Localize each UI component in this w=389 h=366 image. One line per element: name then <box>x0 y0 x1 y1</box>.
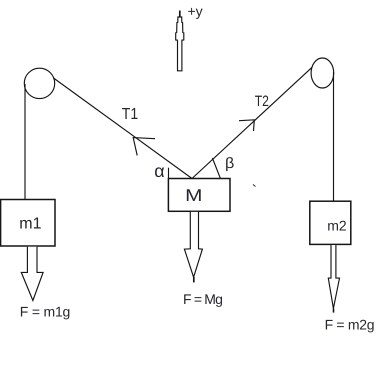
svg-text:m2: m2 <box>327 218 347 234</box>
svg-text:F = m1g: F = m1g <box>20 303 70 319</box>
svg-text:F = Mg: F = Mg <box>183 291 222 307</box>
svg-text:+y: +y <box>188 3 203 19</box>
svg-text:α: α <box>154 161 164 181</box>
svg-text:F = m2g: F = m2g <box>325 317 375 333</box>
svg-text:β: β <box>225 155 235 172</box>
svg-text:M: M <box>185 186 202 205</box>
svg-text:T1: T1 <box>122 106 138 123</box>
svg-text:m1: m1 <box>19 215 41 232</box>
svg-text:T2: T2 <box>255 93 269 110</box>
